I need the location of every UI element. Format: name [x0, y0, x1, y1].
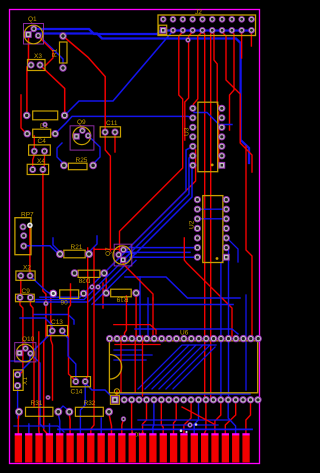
capacitor C4	[24, 129, 58, 145]
svg-text:X1: X1	[22, 377, 29, 385]
svg-text:R21: R21	[71, 244, 83, 251]
wire red U6 pad to finger19	[205, 404, 206, 437]
wire blue U2 row c	[130, 256, 197, 258]
diode D1	[23, 111, 68, 130]
wire blue U6 stair 1	[138, 345, 216, 389]
wire blue R21 right stub	[89, 236, 97, 252]
via marks near CON1	[180, 429, 183, 432]
wire blue Q9 to R25 right	[89, 137, 100, 165]
wire red C4 right chain	[43, 153, 45, 168]
wire blue U3 inner	[194, 113, 232, 125]
via D28 area b	[96, 285, 100, 289]
wire blue U2 row b	[126, 251, 190, 253]
wire red X4 long vertical	[43, 171, 48, 436]
wire red U6 inner top	[115, 344, 160, 346]
via mid left	[44, 301, 48, 305]
wire red left column to rect2	[21, 95, 27, 134]
wire blue U6 pad to finger18	[194, 404, 198, 437]
wire red J2 fanout b	[185, 32, 193, 140]
resistor R19	[103, 289, 140, 302]
wire blue bus Q1 to J2 row	[36, 29, 251, 34]
svg-text:Q10: Q10	[22, 336, 35, 343]
svg-text:Q1: Q1	[28, 16, 37, 23]
resistor R25	[61, 157, 97, 170]
wire red J2 fanout right	[222, 32, 252, 172]
resistor R31	[16, 400, 62, 416]
wire red X3 to D1 right	[41, 66, 65, 115]
wire red J2 fanout to U3	[193, 32, 202, 107]
wire red D28 column a	[85, 248, 88, 380]
wire blue left horizontal 314	[34, 315, 74, 325]
wire red Q7 to R19	[123, 261, 153, 300]
wire red X2 to C9	[19, 278, 22, 296]
wire blue R25 left stub	[57, 143, 64, 164]
svg-text:R19: R19	[116, 296, 128, 303]
wire red C4 X4 chain	[33, 136, 35, 168]
wire red J2 long through b	[211, 32, 213, 398]
IC U3	[184, 102, 225, 172]
wire red U6 pad to finger23	[246, 404, 251, 437]
wire red long diag right	[184, 238, 232, 336]
wire red C9 left down	[19, 300, 23, 375]
wire red mid vertical 153	[152, 298, 154, 336]
svg-text:R31: R31	[31, 400, 43, 407]
wire red J2 short i	[250, 32, 252, 46]
wire blue X1 down	[17, 387, 19, 418]
wire red mid verticals b	[51, 291, 53, 400]
wire blue U2 inner 2	[197, 218, 226, 220]
wire red R32 to finger6	[68, 414, 71, 437]
svg-text:Q9: Q9	[77, 119, 86, 126]
connector X1	[14, 370, 30, 391]
wire red J2 fanout g	[230, 32, 235, 130]
wire red Q1 to X3	[28, 36, 30, 61]
via bottom mid	[188, 423, 192, 427]
wire blue U6 stair 5	[166, 345, 210, 389]
wire red R32 to finger10	[109, 414, 112, 437]
wire blue U2 lower right diag	[226, 237, 238, 262]
wire blue R31 R32 vee	[58, 406, 69, 411]
wire blue X2 to pad	[30, 276, 52, 295]
svg-text:C11: C11	[106, 120, 118, 127]
wire red R19 right down	[135, 295, 137, 336]
diode D28	[71, 270, 108, 284]
wire blue right vert c	[245, 295, 247, 390]
wire blue finger2 stub	[28, 424, 30, 437]
wire blue finger4 stub	[49, 424, 51, 437]
wire red U6 pad to finger13	[143, 404, 147, 437]
wire blue drop to U6 a	[139, 277, 141, 335]
capacitor C9	[16, 288, 35, 302]
svg-text:RP7: RP7	[21, 212, 34, 219]
wire blue bundle 1	[119, 146, 193, 256]
wire red U6 pad to finger17	[184, 404, 191, 437]
board outline	[10, 10, 260, 464]
wire red CON area diagonal	[182, 407, 214, 424]
wire blue U6 pad to finger14	[153, 404, 154, 437]
connector X2	[16, 265, 35, 281]
wire red via to finger11	[122, 419, 124, 437]
transistor Q9	[70, 119, 94, 150]
wire blue bundle 2	[124, 156, 193, 259]
wire red bundle right flank	[106, 150, 195, 291]
wire blue U6 below body	[120, 393, 250, 395]
wire blue R31 to finger5	[58, 414, 60, 437]
wire blue above U6	[135, 329, 238, 334]
via near J2	[186, 38, 190, 42]
wire blue U2 row a	[128, 247, 197, 249]
wire red J2 short h	[241, 32, 243, 58]
wire blue U6 inner left 3	[114, 359, 146, 361]
wire blue stepped 277	[125, 277, 240, 298]
capacitor C14	[71, 377, 91, 396]
wire blue drop to U6 b	[147, 298, 149, 335]
wire blue C13 to X1	[18, 332, 53, 375]
resistor R32	[66, 400, 113, 416]
wire blue U2 inner 1	[197, 208, 226, 210]
wire blue bus Q1 lower to right edge	[37, 34, 249, 164]
svg-text:Q7: Q7	[105, 247, 112, 256]
wire blue Q10 stub	[30, 353, 44, 428]
wire blue U6 inner left 2	[114, 354, 152, 356]
svg-text:J2: J2	[195, 9, 202, 16]
wire red R19 left stub	[102, 283, 104, 308]
wire blue U6 stair 3	[152, 345, 196, 389]
wire red D28 column b	[91, 248, 94, 436]
wire red U6 sq pad via	[115, 391, 117, 397]
wire red U6 pad to finger21	[225, 404, 235, 437]
connector CON1	[15, 432, 250, 462]
connector X3	[28, 53, 46, 71]
connector X4	[29, 145, 51, 165]
svg-text:R32: R32	[84, 400, 96, 407]
svg-text:D28: D28	[78, 277, 90, 284]
wire blue Q1 to R1	[39, 36, 63, 63]
wire blue U6 inner left 1	[114, 349, 142, 351]
wire blue U6 stair 4	[159, 345, 203, 389]
svg-text:R25: R25	[76, 157, 88, 164]
wire red J2 long through U3 U2	[202, 32, 204, 398]
via bottom left	[121, 417, 125, 421]
wire red Q7 top horizontal	[95, 248, 121, 250]
capacitor C13	[47, 319, 67, 336]
wire red above U6 left	[114, 325, 156, 334]
wire blue bundle 3	[127, 165, 193, 262]
wire blue bus horiz 3	[36, 257, 140, 302]
wire blue bottom left horizontal	[14, 426, 64, 432]
via D28 area a	[90, 285, 94, 289]
wire red vertical 70 to C14	[69, 284, 76, 380]
wire blue R21 left stub	[53, 238, 60, 252]
svg-text:X2: X2	[23, 265, 31, 272]
wire red U6 pad to finger12	[131, 404, 134, 437]
svg-text:C14: C14	[71, 389, 83, 396]
diode D6	[50, 290, 87, 307]
wire blue bus horiz 1	[40, 252, 132, 298]
wire blue right vert b	[228, 250, 230, 396]
wire red U6 inner vert c	[120, 336, 122, 392]
wire red left vertical 38	[38, 332, 40, 437]
connector J2	[158, 9, 256, 36]
IC U6	[106, 330, 261, 405]
wire red U6 inner vert a	[134, 342, 136, 392]
resistor R21	[57, 244, 93, 258]
wire blue right vert a	[221, 257, 226, 396]
wire blue U6 stair 2	[145, 345, 189, 389]
wire red U6 inner vert b	[142, 336, 144, 396]
wire blue CON area horizontal a	[138, 419, 230, 421]
wire red R1 to C11	[64, 37, 106, 131]
wire red RP7 to X2	[29, 228, 31, 275]
via on D1 label	[43, 122, 47, 126]
wire blue C14 to U6	[85, 383, 113, 398]
wire blue long horizontal 304	[95, 304, 233, 306]
connector X4 body	[27, 164, 48, 174]
IC U2	[189, 196, 230, 263]
wire blue C14 to finger7	[80, 385, 85, 437]
svg-text:C4: C4	[38, 138, 47, 145]
wire red Q1 right diagonal	[38, 36, 53, 66]
resistor R1	[52, 33, 68, 71]
wire blue finger9 stub	[100, 418, 102, 437]
wire blue bus diag extra	[92, 260, 136, 304]
wire red J2 pin fanout a	[119, 32, 183, 255]
wire blue CON area long	[58, 428, 252, 430]
svg-text:90: 90	[61, 300, 69, 307]
wire red U3 inner right	[218, 112, 220, 167]
wire red X3 to D1	[26, 67, 28, 114]
wire red vertical 126	[125, 296, 127, 336]
wire red C9 right down	[30, 300, 34, 406]
transistor Q7	[105, 244, 132, 266]
transistor Q10	[15, 336, 36, 362]
wire blue bus horiz 2	[36, 254, 136, 300]
svg-text:C9: C9	[22, 288, 31, 295]
transistor Q1	[24, 16, 44, 44]
svg-text:R1: R1	[52, 48, 59, 57]
wire red C11 left down	[105, 134, 110, 251]
wire blue RP7 to R21	[25, 246, 60, 254]
wire blue U6 stair 6	[173, 347, 215, 389]
svg-text:X3: X3	[34, 53, 42, 60]
wire red R31 to finger1	[17, 414, 20, 437]
wire blue CON area horizontal b	[142, 424, 218, 426]
wire blue C13 to C14	[62, 332, 76, 379]
wire red U6 pad to finger20	[215, 404, 221, 437]
wire blue U6 pad to finger22	[228, 404, 235, 437]
wire blue left horizontal	[20, 318, 52, 329]
wire blue left mid horizontal	[11, 360, 28, 362]
wire red U6 pad to finger15	[161, 404, 163, 437]
capacitor C11	[100, 120, 120, 137]
via near R31	[46, 396, 50, 400]
wire red U6 pad to finger16	[174, 404, 177, 437]
wire red J2 fanout e	[212, 32, 221, 108]
wire blue rect2 to U3 long	[55, 116, 193, 133]
wire red right edge lower	[246, 146, 252, 338]
wire red C11 right stub	[114, 136, 116, 152]
svg-text:C13: C13	[51, 319, 63, 326]
wire blue D1 to J2 diagonal	[66, 31, 173, 115]
resistor pack RP7	[15, 212, 34, 255]
